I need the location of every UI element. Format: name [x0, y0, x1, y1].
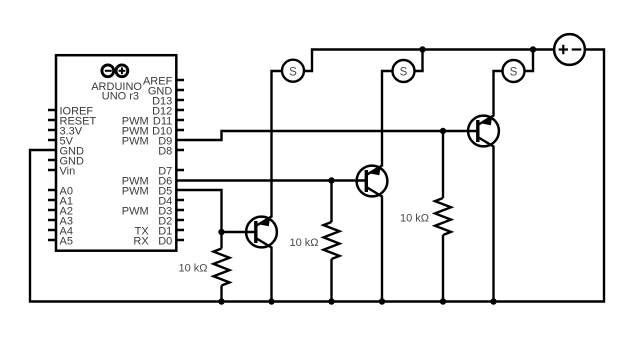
wire D6 to Q2 base	[177, 179, 366, 181]
transistor Q1	[246, 217, 277, 248]
wire D9 to Q3 base	[177, 131, 478, 140]
svg-text:A5: A5	[60, 235, 73, 247]
wire R1 top lead	[220, 232, 222, 249]
resistor R2 10 kOhm	[324, 222, 340, 259]
junction Q2 base / R2	[328, 177, 334, 183]
right pin labels	[122, 75, 173, 247]
label R3 value	[400, 213, 429, 225]
junction ground / Q1	[268, 298, 274, 304]
wire D5 down to base node	[177, 190, 222, 232]
transistor Q3	[468, 116, 499, 147]
junction ground / R3	[440, 298, 446, 304]
wire Q3 collector to ground rail	[492, 146, 494, 302]
label R2 value	[289, 237, 318, 249]
motor M3	[503, 60, 525, 82]
wire R3 top lead	[442, 131, 444, 198]
svg-text:S: S	[400, 67, 408, 79]
left pin stubs	[48, 110, 56, 240]
svg-text:PWM: PWM	[122, 185, 149, 197]
motor M2	[393, 60, 415, 82]
wire Q1 collector to ground rail	[270, 247, 272, 302]
battery / DC supply BT1	[554, 34, 585, 65]
svg-text:D8: D8	[158, 145, 172, 157]
svg-text:10 kΩ: 10 kΩ	[289, 237, 318, 249]
wire motor M1 left to Q1 emitter	[272, 71, 283, 218]
svg-text:PWM: PWM	[122, 135, 149, 147]
wire R2 bottom lead	[330, 259, 332, 302]
svg-text:S: S	[289, 66, 297, 78]
svg-text:10 kΩ: 10 kΩ	[400, 213, 429, 225]
svg-text:D0: D0	[158, 235, 172, 247]
svg-text:PWM: PWM	[122, 205, 149, 217]
resistor R3 10 kOhm	[435, 198, 451, 235]
svg-text:10 kΩ: 10 kΩ	[178, 263, 207, 275]
svg-text:RX: RX	[133, 235, 149, 247]
wire R2 top lead	[330, 181, 332, 223]
left pin labels	[60, 105, 97, 247]
wire positive top rail from motor M1 to supply	[303, 50, 555, 72]
wire Q2 collector to ground rail	[381, 196, 383, 302]
junction top rail / M2	[419, 46, 425, 52]
motor M1	[282, 60, 304, 82]
svg-text:Vin: Vin	[60, 165, 76, 177]
junction ground / Q3	[490, 298, 496, 304]
wire R1 bottom lead	[220, 286, 222, 302]
svg-text:S: S	[510, 67, 518, 79]
resistor R1 10 kOhm	[214, 249, 230, 286]
transistor Q2	[357, 166, 388, 197]
wire base node to Q1 base	[222, 231, 256, 233]
wire motor M3 left to Q3 emitter	[494, 71, 504, 117]
wire motor M2 left to Q2 emitter	[382, 71, 393, 167]
label R1 value	[178, 263, 207, 275]
wire motor M3 right to top rail	[524, 50, 533, 72]
label ARDUINO UNO r3	[91, 81, 142, 103]
junction ground / R2	[328, 298, 334, 304]
wire R3 bottom lead	[442, 235, 444, 302]
junction top rail / M3	[530, 46, 536, 52]
IC U1 Arduino UNO r3 body	[56, 55, 176, 251]
junction Q1 base / R1	[218, 229, 224, 235]
Arduino logo	[102, 65, 128, 77]
svg-text:UNO r3: UNO r3	[102, 91, 139, 103]
junction Q3 base / R3	[440, 128, 446, 134]
right pin stubs	[176, 80, 184, 240]
wire motor M2 right to top rail	[414, 50, 423, 72]
junction ground / R1	[218, 298, 224, 304]
wire GND loop from Arduino GND to supply negative	[30, 50, 604, 302]
junction ground / Q2	[379, 298, 385, 304]
